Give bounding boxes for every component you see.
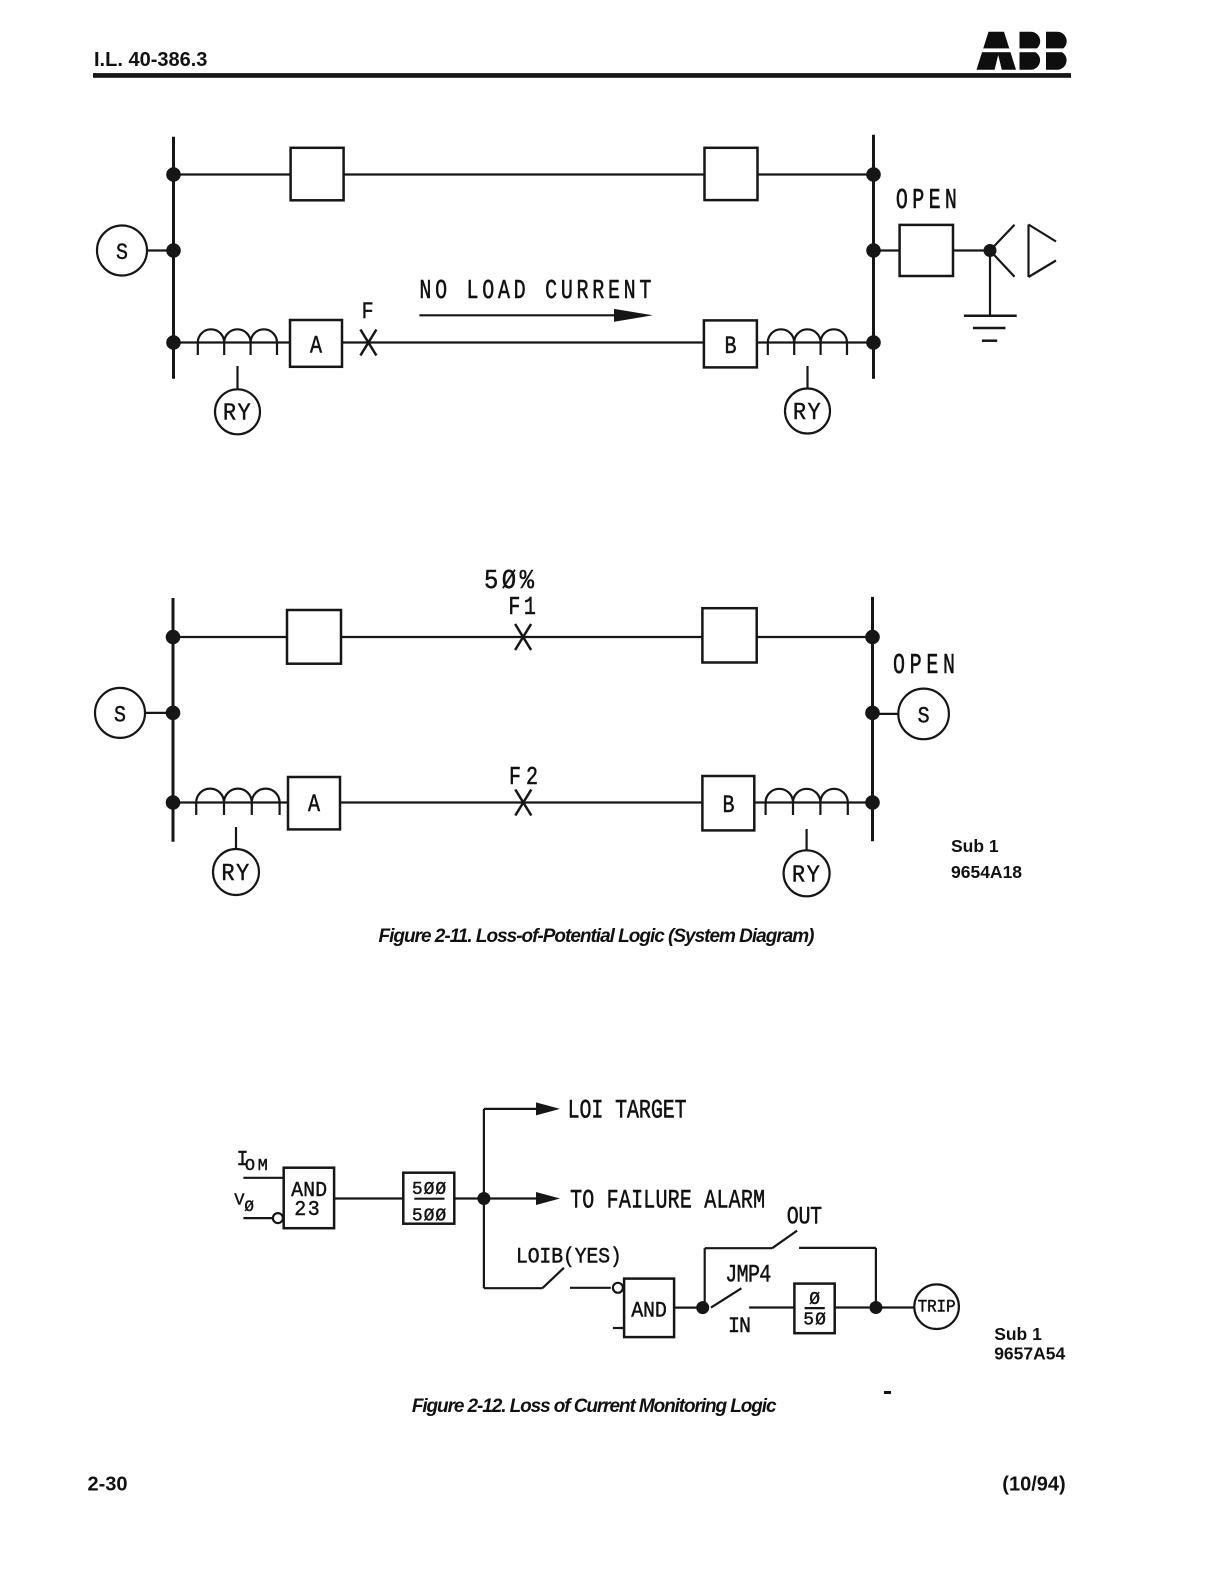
svg-text:TRIP: TRIP [918,1298,956,1318]
svg-text:I.L. 40-386.3: I.L. 40-386.3 [94,49,207,71]
svg-text:Ø: Ø [809,1290,820,1310]
svg-text:B: B [723,791,735,820]
svg-text:Figure 2-12. Loss of Current M: Figure 2-12. Loss of Current Monitoring … [412,1396,777,1417]
svg-text:5ØØ: 5ØØ [412,1207,446,1227]
svg-text:LOIB(YES): LOIB(YES) [516,1245,622,1270]
svg-text:JMP4: JMP4 [725,1260,771,1289]
svg-text:S: S [918,703,930,730]
svg-text:NO LOAD CURRENT: NO LOAD CURRENT [419,277,651,308]
svg-text:Sub 1: Sub 1 [994,1324,1042,1344]
svg-text:5ØØ: 5ØØ [412,1180,446,1200]
svg-text:S: S [116,240,128,267]
svg-text:5Ø: 5Ø [803,1310,826,1330]
svg-text:9654A18: 9654A18 [951,862,1022,882]
svg-text:OUT: OUT [787,1203,822,1232]
svg-text:RY: RY [223,400,252,427]
svg-text:Figure 2-11. Loss-of-Potential: Figure 2-11. Loss-of-Potential Logic (Sy… [379,926,815,947]
svg-text:Ø: Ø [244,1198,254,1216]
svg-text:OM: OM [245,1157,268,1176]
svg-text:F: F [362,299,374,326]
svg-text:23: 23 [294,1199,320,1222]
svg-text:2-30: 2-30 [88,1473,128,1495]
svg-text:F1: F1 [508,593,536,622]
svg-text:RY: RY [793,399,822,426]
svg-text:9657A54: 9657A54 [994,1343,1065,1363]
svg-text:A: A [308,790,320,819]
svg-text:RY: RY [792,862,821,889]
svg-text:S: S [114,702,126,729]
svg-text:RY: RY [221,860,250,887]
svg-text:IN: IN [728,1314,751,1339]
svg-text:OPEN: OPEN [893,650,955,683]
svg-text:TO FAILURE ALARM: TO FAILURE ALARM [570,1186,765,1217]
svg-text:(10/94): (10/94) [1002,1473,1065,1495]
svg-text:A: A [310,332,322,361]
svg-text:AND: AND [631,1299,667,1324]
svg-text:Sub 1: Sub 1 [951,836,999,856]
svg-text:B: B [725,332,737,361]
svg-text:F2: F2 [509,763,538,792]
svg-text:OPEN: OPEN [896,185,957,218]
svg-text:LOI TARGET: LOI TARGET [568,1096,687,1127]
